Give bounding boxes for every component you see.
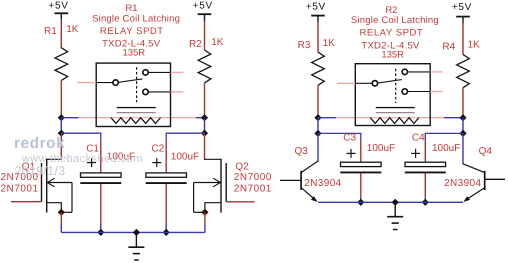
- node C4-gnd junction: [422, 199, 429, 206]
- capacitor C3: [340, 162, 381, 172]
- node rail-ground junction: [133, 229, 140, 236]
- relay K1 NO contact wire: [149, 71, 171, 73]
- wire node D to Q2 drain: [204, 133, 206, 159]
- transistor Q2 body arrow: [194, 178, 221, 187]
- ground (left circuit): [128, 232, 144, 260]
- label R1: [44, 26, 57, 37]
- transistor Q1 body lead: [61, 183, 72, 213]
- label Q3: [295, 146, 309, 157]
- transistor Q4 collector lead: [463, 164, 485, 173]
- label 1K (R4): [468, 39, 481, 50]
- capacitor C4 polarity +: [411, 149, 420, 158]
- svg-text:1K: 1K: [323, 38, 336, 49]
- wire relay R2 coil pin left (pink): [336, 117, 370, 119]
- transistor Q4 emitter lead: [463, 188, 484, 202]
- wire ground rail (right circuit): [318, 201, 463, 203]
- watermark date: [15, 164, 66, 178]
- wire R3 to node E: [317, 85, 319, 118]
- node G junction: [459, 114, 466, 121]
- wire +5V to R4: [462, 22, 464, 55]
- svg-text:2019/1/3: 2019/1/3: [15, 164, 66, 178]
- label Q4: [479, 146, 493, 157]
- svg-text:2N3904: 2N3904: [444, 178, 481, 189]
- relay K2 NC pin wire (pink): [430, 91, 442, 93]
- wire ground rail (left circuit): [61, 231, 205, 233]
- label R2 relay title: [385, 5, 397, 16]
- relay K1 dashed actuator line: [136, 67, 138, 102]
- wire R4 to node G: [462, 88, 464, 118]
- wire node B to C1 (blue): [61, 133, 101, 140]
- relay K1 coil: [111, 118, 161, 124]
- wire R1 to node A: [60, 81, 62, 119]
- wire Q1 source to rail: [60, 212, 62, 232]
- relay K2 common contact: [372, 81, 377, 86]
- svg-text:135R: 135R: [381, 49, 404, 60]
- svg-text:+5V: +5V: [48, 1, 68, 12]
- svg-text:+5V: +5V: [306, 1, 326, 12]
- wire C2 to ground rail: [165, 184, 167, 232]
- relay K2 NC contact: [402, 89, 407, 94]
- label R3: [298, 40, 311, 51]
- relay K1 armature: [119, 79, 143, 82]
- svg-text:1K: 1K: [468, 39, 481, 50]
- svg-text:1K: 1K: [66, 24, 79, 35]
- wire to C1 top: [100, 140, 102, 173]
- capacitor C4: [405, 162, 446, 172]
- label C4: [412, 133, 425, 144]
- wire relay coil right to node C (blue): [196, 117, 205, 119]
- label TXD2-L-4.5V (K2): [361, 40, 420, 51]
- transistor Q3 base bar: [300, 171, 302, 190]
- relay K2 NO pin wire (pink): [430, 71, 442, 73]
- label C3: [343, 133, 356, 144]
- wire node F to C3 (blue): [318, 133, 361, 140]
- label 2N7000 (Q1): [1, 172, 39, 183]
- power +5V (right circuit, right rail): [452, 2, 472, 23]
- wire Q4 base input: [485, 178, 505, 180]
- svg-text:100uF: 100uF: [171, 152, 199, 163]
- node C3-gnd junction: [357, 199, 364, 206]
- relay K2 NO contact wire: [408, 71, 430, 73]
- node E junction: [314, 114, 321, 121]
- resistor R4: [457, 55, 470, 88]
- resistor R3: [312, 52, 325, 85]
- node D junction: [201, 130, 208, 137]
- wire relay R2 coil through (pink): [370, 117, 419, 119]
- wire +5V to R2: [204, 20, 206, 50]
- ground (right circuit): [387, 202, 403, 229]
- label RELAY SPDT: [100, 26, 164, 37]
- relay K2 core line 1: [376, 107, 415, 109]
- svg-text:Single Coil Latching: Single Coil Latching: [351, 15, 439, 26]
- transistor Q2 source lead: [205, 203, 221, 213]
- label R2: [189, 39, 202, 50]
- label 1K (R1): [66, 24, 79, 35]
- relay K1 NC pin wire (pink): [171, 91, 184, 93]
- label 2N3904 (Q3): [304, 178, 341, 189]
- transistor Q2 gate bar: [225, 163, 227, 202]
- node C2-gnd junction: [163, 229, 170, 236]
- svg-text:100uF: 100uF: [432, 143, 460, 154]
- node F junction: [314, 130, 321, 137]
- relay K1 NO pin wire (pink): [171, 71, 184, 73]
- svg-text:R1: R1: [44, 26, 57, 37]
- node Q2 source junction: [201, 209, 208, 216]
- relay K1 common contact: [113, 80, 118, 85]
- relay K2 coil: [370, 118, 419, 124]
- svg-text:2N3904: 2N3904: [304, 178, 341, 189]
- capacitor C1: [80, 173, 121, 183]
- label TXD2-L-4.5V: [102, 39, 161, 50]
- wire node E to relay coil left (blue): [318, 117, 336, 119]
- resistor R1: [55, 48, 68, 81]
- wire C4 to ground rail: [424, 173, 426, 202]
- capacitor C3 polarity +: [347, 149, 356, 158]
- wire Q1 gate input: [11, 201, 42, 203]
- transistor Q1 body arrow: [47, 178, 72, 187]
- wire Q3 base input: [280, 179, 301, 181]
- wire +5V to R3: [317, 21, 319, 52]
- wire to C2 top: [165, 140, 167, 173]
- relay K2 dashed actuator line: [395, 69, 397, 103]
- relay K2 armature: [378, 80, 402, 83]
- relay K1 NC contact: [143, 89, 148, 94]
- resistor R2: [198, 50, 211, 83]
- capacitor C2: [146, 173, 187, 183]
- wire node H to Q4 collector: [462, 133, 464, 164]
- transistor Q1 channel bar: [46, 159, 48, 213]
- relay K1 core line 2: [117, 112, 156, 114]
- label C1: [86, 144, 99, 155]
- label 100uF (C2): [171, 152, 199, 163]
- capacitor C1 polarity +: [87, 158, 96, 167]
- transistor Q1 gate bar: [41, 163, 43, 202]
- label 100uF (C1): [107, 152, 135, 163]
- label 2N3904 (Q4): [444, 178, 481, 189]
- power +5V (left circuit, right rail): [193, 1, 213, 22]
- capacitor C2 polarity +: [152, 158, 161, 167]
- watermark www.thebackshed.com: [21, 153, 143, 165]
- relay K2 common contact wire: [355, 82, 372, 84]
- watermark redrok: [14, 135, 65, 152]
- label RELAY SPDT (K2): [360, 28, 424, 39]
- node A junction: [58, 114, 65, 121]
- label 100uF (C4): [432, 143, 460, 154]
- transistor Q1 drain lead: [47, 158, 62, 160]
- svg-text:Q2: Q2: [235, 162, 249, 173]
- relay K2 core line 2: [376, 112, 415, 114]
- wire relay R2 coil pin right (pink): [419, 117, 444, 119]
- wire node B to Q1 drain: [60, 133, 62, 159]
- transistor Q4 base bar: [484, 171, 486, 190]
- label 1K (R2): [211, 37, 224, 48]
- transistor Q1 source lead: [47, 203, 62, 213]
- svg-text:135R: 135R: [122, 47, 145, 58]
- wire to C4 top: [424, 141, 426, 163]
- label Q1: [22, 162, 36, 173]
- relay K1 core line 1: [117, 107, 156, 109]
- wire node E to node F: [317, 118, 319, 134]
- node C1-gnd junction: [97, 229, 104, 236]
- relay K1 NC contact wire: [149, 91, 171, 93]
- transistor Q3 collector lead: [301, 161, 318, 173]
- label 2N7001 (Q2): [234, 184, 272, 195]
- wire node D to C2 (blue): [166, 133, 204, 140]
- svg-text:R4: R4: [442, 42, 455, 53]
- wire to C3 top: [360, 141, 362, 163]
- label C2: [151, 144, 164, 155]
- wire relay coil pin left (pink): [79, 117, 112, 119]
- wire node A to node B: [60, 118, 62, 134]
- node H junction: [459, 130, 466, 137]
- relay K1 NO contact: [143, 70, 148, 75]
- label Q2: [235, 162, 249, 173]
- relay K2 common contact pin wire (pink): [337, 82, 355, 84]
- node C junction: [201, 114, 208, 121]
- wire C1 to ground rail: [100, 184, 102, 232]
- svg-text:R1: R1: [125, 3, 137, 14]
- wire node G to node H: [462, 118, 464, 134]
- wire node C to node D: [204, 118, 206, 134]
- svg-text:Q4: Q4: [479, 146, 493, 157]
- relay K2 NC contact wire: [408, 91, 430, 93]
- wire relay coil pin right (pink): [161, 117, 197, 119]
- relay K1 common contact wire: [96, 82, 112, 84]
- wire node A to relay coil left (blue): [61, 117, 78, 119]
- wire relay coil right to node G (blue): [444, 117, 463, 119]
- svg-text:+5V: +5V: [452, 2, 472, 13]
- power +5V (right circuit, left rail): [306, 1, 326, 22]
- node B junction: [58, 130, 65, 137]
- wire relay coil through (pink): [111, 117, 161, 119]
- label 135R: [122, 47, 145, 58]
- wire node F to Q3 collector: [317, 133, 319, 161]
- label 2N7001 (Q1): [1, 184, 39, 195]
- wire Q2 source to rail: [204, 212, 206, 232]
- transistor Q2 body lead: [194, 183, 205, 213]
- svg-text:Single Coil Latching: Single Coil Latching: [92, 14, 180, 25]
- svg-text:2N7000: 2N7000: [234, 172, 272, 183]
- svg-text:C2: C2: [151, 144, 164, 155]
- svg-text:redrok: redrok: [14, 135, 65, 152]
- label 1K (R3): [323, 38, 336, 49]
- power +5V (left circuit, left rail): [48, 1, 68, 21]
- wire +5V to R1: [60, 19, 62, 48]
- label 100uF (C3): [367, 143, 395, 154]
- relay K1 common contact pin wire (pink): [77, 82, 96, 84]
- svg-text:C4: C4: [412, 133, 425, 144]
- svg-text:C3: C3: [343, 133, 356, 144]
- svg-text:www.thebackshed.com: www.thebackshed.com: [21, 153, 143, 165]
- svg-text:+5V: +5V: [193, 1, 213, 12]
- svg-text:R2: R2: [189, 39, 202, 50]
- svg-text:R3: R3: [298, 40, 311, 51]
- svg-text:2N7001: 2N7001: [234, 184, 272, 195]
- wire Q2 gate input: [226, 201, 254, 203]
- node rail-ground junction (right): [392, 199, 399, 206]
- label 2N7000 (Q2): [234, 172, 272, 183]
- wire R2 to node C: [204, 83, 206, 118]
- label R1 relay title: [125, 3, 137, 14]
- transistor Q2 drain lead: [204, 158, 221, 160]
- svg-text:RELAY SPDT: RELAY SPDT: [100, 26, 164, 37]
- label Single Coil Latching (K2): [351, 15, 439, 26]
- svg-text:RELAY SPDT: RELAY SPDT: [360, 28, 424, 39]
- relay K1 body: [96, 63, 170, 126]
- node Q1 source junction: [58, 209, 65, 216]
- svg-text:Q3: Q3: [295, 146, 309, 157]
- label Single Coil Latching: [92, 14, 180, 25]
- svg-text:100uF: 100uF: [367, 143, 395, 154]
- transistor Q3 emitter lead: [301, 188, 318, 202]
- svg-text:2N7001: 2N7001: [1, 184, 39, 195]
- wire C3 to ground rail: [360, 173, 362, 202]
- label 135R (K2): [381, 49, 404, 60]
- relay K2 NO contact: [402, 69, 407, 74]
- relay K2 body: [355, 64, 430, 126]
- wire node H to C4 (blue): [425, 133, 463, 140]
- transistor Q2 channel bar: [220, 159, 222, 213]
- svg-text:1K: 1K: [211, 37, 224, 48]
- label R4: [442, 42, 455, 53]
